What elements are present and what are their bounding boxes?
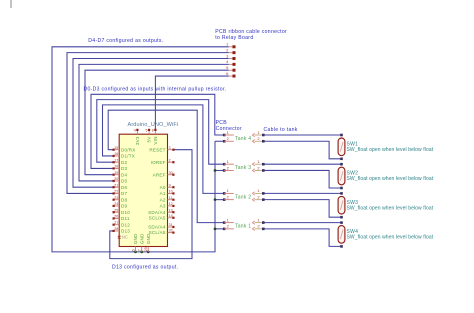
svg-text:D12: D12: [121, 222, 130, 227]
Tank2 PCB connector pin 1: [223, 188, 234, 195]
svg-text:D4: D4: [121, 172, 128, 177]
svg-text:4: 4: [134, 129, 136, 133]
svg-text:VIN: VIN: [153, 136, 158, 144]
svg-text:11: 11: [169, 196, 173, 200]
switch SW4 float switch: [338, 221, 345, 247]
wire Tank2 cable pin2 to SW3 bottom: [263, 200, 341, 218]
svg-text:8: 8: [152, 129, 154, 133]
svg-text:24: 24: [114, 202, 118, 206]
svg-text:RESET: RESET: [149, 147, 165, 152]
svg-text:SCL/A5: SCL/A5: [149, 215, 166, 220]
Arduino bottom pin 29 GND: [144, 233, 151, 252]
Tank3 cable connector pin 1: [252, 159, 264, 166]
Arduino left pin 24 D9: [113, 202, 128, 209]
svg-text:A0: A0: [160, 185, 166, 190]
svg-text:D6: D6: [121, 185, 128, 190]
junction GND at bottom pin 7: [140, 251, 143, 254]
Arduino left pin 23 D8: [113, 196, 128, 203]
Arduino right pin 31 SDA/A4: [148, 223, 174, 230]
relay connector pin 3: [226, 53, 235, 60]
svg-text:GND: GND: [146, 233, 151, 244]
svg-text:Tank 1: Tank 1: [235, 224, 251, 230]
svg-text:29: 29: [144, 247, 148, 251]
svg-text:Arduino_UNO_WiFi: Arduino_UNO_WiFi: [128, 122, 179, 128]
svg-text:5: 5: [146, 129, 148, 133]
svg-text:14: 14: [169, 214, 173, 218]
relay connector pin 2: [226, 47, 235, 54]
svg-text:SDA/A4: SDA/A4: [148, 225, 166, 230]
Arduino right pin 2 IOREF: [151, 158, 175, 165]
svg-text:D7: D7: [121, 191, 128, 196]
svg-text:D4-D7 configured as outputs.: D4-D7 configured as outputs.: [88, 38, 163, 44]
wire RESET to D13 loop: [110, 150, 192, 259]
junction GND bus at Tank2 pin2: [214, 198, 217, 201]
svg-text:21: 21: [114, 183, 118, 187]
svg-text:13: 13: [169, 208, 173, 212]
wire D3 net loop to Tank4 pin1: [91, 94, 224, 168]
junction GND bus at Tank3 pin2: [214, 169, 217, 172]
Tank4 cable connector pin 2: [252, 136, 264, 143]
relay connector pin 4: [226, 59, 235, 66]
sheet border tick: [10, 0, 12, 8]
svg-text:A2: A2: [160, 197, 166, 202]
Arduino left pin 18 D3: [113, 165, 128, 172]
svg-text:D8: D8: [121, 197, 128, 202]
wire D4 net: relay pin5 to D4: [85, 70, 229, 175]
svg-text:SW_float open when level below: SW_float open when level below float: [347, 235, 434, 241]
Arduino top pin 5 5V: [146, 129, 152, 143]
svg-text:D0/RX: D0/RX: [121, 147, 136, 152]
svg-text:2: 2: [169, 158, 171, 162]
wire D0 net loop to Tank1 pin1: [108, 110, 224, 222]
Tank4 PCB connector pin 2: [223, 136, 234, 143]
svg-text:NC: NC: [122, 234, 128, 239]
svg-text:D10: D10: [121, 210, 130, 215]
svg-text:D1/TX: D1/TX: [121, 154, 135, 159]
svg-text:12: 12: [169, 202, 173, 206]
svg-text:D13: D13: [121, 229, 130, 234]
Arduino left pin 21 D6: [113, 183, 128, 190]
relay connector pin 6: [226, 71, 235, 78]
Arduino left pin 17 D2: [113, 158, 128, 165]
Tank4 cable connector pin 1: [252, 130, 264, 137]
svg-text:7: 7: [138, 249, 142, 251]
svg-text:Tank 4: Tank 4: [235, 136, 251, 142]
Arduino right pin 10 A1: [160, 190, 175, 197]
wire GND stub Tank2 pin2: [215, 199, 224, 201]
svg-text:28: 28: [114, 227, 118, 231]
wire Tank2 cable pin1 to SW3 top: [263, 192, 341, 194]
wire Tank4 cable pin1 to SW1 top: [263, 134, 341, 136]
Tank3 PCB connector pin 2: [223, 165, 234, 172]
svg-text:23: 23: [114, 196, 118, 200]
svg-text:10: 10: [169, 190, 173, 194]
svg-text:IOREF: IOREF: [151, 160, 166, 165]
Arduino left pin 15 D0/RX: [113, 146, 136, 153]
svg-text:6: 6: [132, 249, 136, 251]
svg-text:31: 31: [169, 223, 173, 227]
Arduino top pin 8 VIN: [152, 129, 158, 145]
svg-text:D3: D3: [121, 166, 128, 171]
Arduino left pin 19 D4: [113, 171, 128, 178]
svg-text:Tank 2: Tank 2: [235, 194, 251, 200]
relay connector pin 1: [226, 42, 235, 49]
Tank1 PCB connector pin 2: [223, 224, 234, 231]
svg-text:26: 26: [114, 215, 118, 219]
Arduino left pin 27 D12: [113, 221, 131, 228]
svg-text:32: 32: [169, 229, 173, 233]
svg-text:30: 30: [169, 171, 173, 175]
Arduino right pin 11 A2: [160, 196, 175, 203]
svg-text:D5: D5: [121, 179, 128, 184]
Arduino right pin 12 A3: [160, 202, 175, 209]
svg-text:SW_float open when level below: SW_float open when level below float: [347, 205, 434, 211]
switch SW2 float switch: [338, 163, 345, 189]
switch SW3 float switch: [338, 192, 345, 218]
Arduino bottom pin 6 GND: [132, 233, 139, 252]
Arduino right pin 9 A0: [160, 183, 175, 190]
Arduino right pin 13 SDA/A4: [148, 208, 174, 215]
svg-text:17: 17: [114, 158, 118, 162]
wire Tank3 cable pin1 to SW2 top: [263, 163, 341, 165]
Arduino right pin 30 AREF: [153, 171, 175, 178]
svg-text:19: 19: [114, 171, 118, 175]
Arduino module A1 body: [119, 134, 167, 246]
junction GND at bottom pin 6: [134, 251, 137, 254]
svg-text:20: 20: [114, 177, 118, 181]
wire D1 net loop to Tank2 pin1: [103, 105, 224, 193]
svg-text:D13 configured as output.: D13 configured as output.: [112, 265, 178, 271]
Tank3 PCB connector pin 1: [223, 159, 234, 166]
svg-text:GND: GND: [133, 233, 138, 244]
svg-text:22: 22: [114, 190, 118, 194]
Tank4 PCB connector pin 1: [223, 130, 234, 137]
junction GND bus at Tank1 pin2: [214, 228, 217, 231]
wire D6 net: relay pin3 to D6: [73, 59, 229, 188]
svg-text:D9: D9: [121, 204, 128, 209]
junction GND at bottom pin 29: [147, 251, 150, 254]
svg-text:AREF: AREF: [153, 172, 166, 177]
wire GND stub Tank3 pin2: [215, 169, 224, 171]
switch SW1 float switch: [338, 134, 345, 160]
Tank2 PCB connector pin 2: [223, 194, 234, 201]
Arduino left pin 20 D5: [113, 177, 128, 184]
svg-text:25: 25: [114, 208, 118, 212]
Tank1 PCB connector pin 1: [223, 217, 234, 224]
svg-text:3V3: 3V3: [135, 136, 140, 145]
wire GND net: relay pin1 - left loop - gnd rail - gnd bus up to Tank4 pin2: [52, 47, 229, 252]
svg-text:9: 9: [169, 183, 171, 187]
svg-text:Cable to tank: Cable to tank: [264, 127, 298, 133]
svg-text:D11: D11: [121, 216, 130, 221]
Arduino top pin 4 3V3: [134, 129, 140, 146]
svg-text:SDA/A4: SDA/A4: [148, 210, 166, 215]
svg-text:GND: GND: [139, 233, 144, 244]
wire Tank3 cable pin2 to SW2 bottom: [263, 170, 341, 188]
Arduino left pin 26 D11: [113, 215, 130, 222]
svg-text:3: 3: [169, 146, 171, 150]
svg-text:A1: A1: [160, 191, 166, 196]
Arduino pin 1 NC no-connect: [118, 234, 128, 239]
wire D7 net: relay pin2 to D7: [67, 53, 229, 194]
svg-text:5V: 5V: [147, 136, 152, 143]
Arduino left pin 22 D7: [113, 190, 128, 197]
svg-text:18: 18: [114, 165, 118, 169]
svg-text:SW_float open when level below: SW_float open when level below float: [347, 147, 434, 153]
Arduino right pin 14 SCL/A5: [149, 214, 175, 221]
Tank2 cable connector pin 2: [252, 194, 264, 201]
Tank3 cable connector pin 2: [252, 165, 264, 172]
Tank1 cable connector pin 1: [252, 217, 264, 224]
relay connector pin 5: [226, 65, 235, 72]
wire Tank1 cable pin1 to SW4 top: [263, 222, 341, 224]
wire Tank4 cable pin2 to SW1 bottom: [263, 141, 341, 159]
Tank1 cable connector pin 2: [252, 224, 264, 231]
svg-text:SCL/A5: SCL/A5: [149, 230, 166, 235]
wire GND stub Tank1 pin2: [215, 228, 224, 230]
wire Tank1 cable pin2 to SW4 bottom: [263, 229, 341, 247]
wire D2 net loop to Tank3 pin1: [97, 100, 224, 165]
Tank2 cable connector pin 1: [252, 188, 264, 195]
svg-text:A3: A3: [160, 204, 166, 209]
svg-text:27: 27: [114, 221, 118, 225]
wire D5 net: relay pin4 to D5: [79, 64, 229, 181]
Arduino left pin 16 D1/TX: [113, 152, 136, 159]
Arduino left pin 28 D13: [113, 227, 131, 234]
wire Tank4 pin2 stub from bus: [215, 140, 224, 142]
wire VIN net: relay pin6 to VIN top pin: [155, 76, 228, 129]
svg-text:Tank 3: Tank 3: [235, 165, 251, 171]
Arduino right pin 3 RESET: [149, 146, 174, 153]
svg-text:D2: D2: [121, 160, 128, 165]
Arduino bottom pin 7 GND: [138, 233, 145, 252]
svg-text:16: 16: [114, 152, 118, 156]
Arduino left pin 25 D10: [113, 208, 131, 215]
svg-text:to Relay Board: to Relay Board: [215, 35, 253, 41]
Arduino right pin 32 SCL/A5: [149, 229, 175, 236]
svg-text:SW_float open when level below: SW_float open when level below float: [347, 176, 434, 182]
svg-text:15: 15: [114, 146, 118, 150]
